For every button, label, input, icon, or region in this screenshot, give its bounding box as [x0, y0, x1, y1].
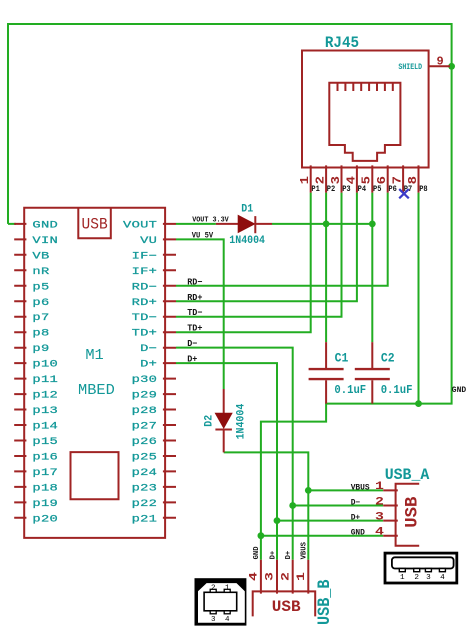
svg-text:RD−: RD− [187, 277, 202, 287]
svg-text:4: 4 [375, 525, 384, 537]
svg-text:USB: USB [272, 598, 301, 616]
svg-text:GND: GND [452, 386, 466, 395]
svg-text:USB_B: USB_B [314, 579, 334, 625]
svg-text:4: 4 [440, 574, 445, 582]
svg-text:USB: USB [82, 215, 108, 234]
svg-text:D−: D− [140, 343, 157, 354]
svg-text:P4: P4 [358, 185, 367, 194]
svg-text:D+: D+ [140, 358, 157, 369]
svg-text:9: 9 [437, 54, 444, 68]
svg-text:p19: p19 [32, 498, 58, 509]
svg-text:VBUS: VBUS [351, 483, 370, 492]
svg-text:IF−: IF− [132, 250, 158, 261]
svg-text:P2: P2 [327, 185, 336, 194]
svg-text:D−: D− [351, 499, 361, 508]
svg-text:D+: D+ [351, 514, 361, 523]
svg-text:M1: M1 [85, 348, 103, 364]
svg-text:2: 2 [279, 572, 292, 581]
svg-text:D1: D1 [241, 203, 253, 216]
svg-text:7: 7 [391, 176, 405, 184]
svg-text:p6: p6 [32, 297, 49, 308]
svg-text:p21: p21 [132, 513, 158, 524]
svg-text:0.1uF: 0.1uF [334, 383, 366, 397]
svg-text:p13: p13 [32, 405, 58, 416]
svg-text:GND: GND [32, 219, 58, 230]
svg-text:p30: p30 [132, 374, 158, 385]
svg-text:p27: p27 [132, 420, 158, 431]
svg-text:6: 6 [375, 176, 389, 184]
svg-text:1: 1 [400, 574, 405, 582]
svg-text:P3: P3 [342, 185, 351, 194]
svg-text:RD+: RD+ [187, 293, 202, 303]
svg-text:p8: p8 [32, 328, 49, 339]
svg-text:VIN: VIN [32, 235, 58, 246]
svg-text:TD+: TD+ [187, 324, 202, 334]
svg-text:P7: P7 [404, 185, 413, 194]
svg-text:P6: P6 [388, 185, 397, 194]
svg-text:1N4004: 1N4004 [235, 404, 248, 440]
svg-text:RD+: RD+ [132, 297, 158, 308]
svg-text:nR: nR [32, 266, 49, 277]
svg-text:USB_A: USB_A [385, 465, 430, 484]
svg-text:0.1uF: 0.1uF [381, 383, 413, 397]
svg-text:p9: p9 [32, 343, 49, 354]
svg-text:VOUT 3.3V: VOUT 3.3V [192, 216, 229, 224]
svg-text:p7: p7 [32, 312, 49, 323]
svg-text:IF+: IF+ [132, 266, 158, 277]
svg-text:TD−: TD− [187, 308, 202, 318]
svg-text:p10: p10 [32, 358, 58, 369]
svg-text:1: 1 [225, 585, 230, 593]
svg-text:D+: D+ [269, 550, 277, 559]
svg-text:1N4004: 1N4004 [229, 235, 265, 248]
svg-text:3: 3 [211, 616, 216, 624]
svg-text:4: 4 [344, 176, 358, 185]
svg-text:TD−: TD− [132, 312, 158, 323]
svg-text:VOUT: VOUT [123, 219, 157, 230]
svg-text:P8: P8 [419, 185, 428, 194]
svg-text:VU 5V: VU 5V [192, 232, 214, 240]
svg-text:C1: C1 [335, 351, 349, 366]
svg-text:1: 1 [295, 572, 308, 581]
svg-text:VU: VU [140, 235, 157, 246]
svg-text:TD+: TD+ [132, 328, 158, 339]
svg-text:4: 4 [225, 616, 230, 624]
svg-text:p28: p28 [132, 405, 158, 416]
svg-text:GND: GND [253, 546, 261, 560]
svg-text:8: 8 [406, 176, 420, 184]
svg-text:p24: p24 [132, 467, 158, 478]
svg-text:p25: p25 [132, 451, 158, 462]
svg-text:SHIELD: SHIELD [398, 64, 422, 73]
svg-text:RJ45: RJ45 [325, 33, 359, 52]
svg-text:p12: p12 [32, 389, 58, 400]
svg-text:1: 1 [375, 480, 384, 492]
svg-text:D2: D2 [203, 415, 216, 427]
svg-text:USB: USB [403, 497, 422, 528]
svg-text:p20: p20 [32, 513, 58, 524]
svg-text:2: 2 [375, 495, 384, 507]
svg-text:P1: P1 [311, 185, 320, 194]
svg-text:D−: D− [187, 339, 197, 349]
svg-text:VB: VB [32, 250, 49, 261]
svg-text:D+: D+ [187, 355, 197, 365]
svg-text:3: 3 [263, 572, 276, 581]
svg-text:P5: P5 [373, 185, 382, 194]
svg-text:2: 2 [414, 574, 419, 582]
svg-text:p15: p15 [32, 436, 58, 447]
svg-text:GND: GND [351, 529, 365, 538]
svg-text:p26: p26 [132, 436, 158, 447]
svg-text:p16: p16 [32, 451, 58, 462]
svg-text:3: 3 [329, 176, 343, 185]
svg-text:4: 4 [247, 572, 260, 581]
svg-text:1: 1 [298, 176, 312, 185]
svg-text:RD−: RD− [132, 281, 158, 292]
svg-text:MBED: MBED [78, 383, 115, 399]
svg-text:5: 5 [360, 176, 374, 185]
svg-text:2: 2 [314, 176, 328, 184]
svg-text:D+: D+ [285, 550, 293, 559]
svg-text:p5: p5 [32, 281, 49, 292]
svg-text:C2: C2 [381, 351, 395, 366]
svg-text:2: 2 [211, 585, 216, 593]
svg-text:p17: p17 [32, 467, 58, 478]
svg-text:p18: p18 [32, 482, 58, 493]
svg-text:3: 3 [426, 574, 431, 582]
svg-text:p11: p11 [32, 374, 58, 385]
svg-text:p23: p23 [132, 482, 158, 493]
svg-text:3: 3 [375, 510, 384, 522]
svg-text:VBUS: VBUS [300, 542, 308, 560]
svg-text:p14: p14 [32, 420, 58, 431]
svg-text:p22: p22 [132, 498, 158, 509]
svg-text:p29: p29 [132, 389, 158, 400]
